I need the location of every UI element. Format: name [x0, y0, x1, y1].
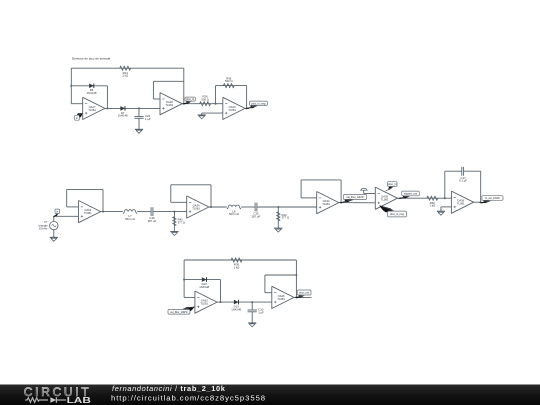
- svg-text:1N4148: 1N4148: [199, 285, 209, 289]
- svg-text:tri_out_10kHz: tri_out_10kHz: [485, 197, 501, 200]
- svg-text:TL081: TL081: [228, 108, 236, 112]
- svg-text:287 μF: 287 μF: [252, 214, 261, 218]
- svg-text:500 Ω: 500 Ω: [201, 97, 209, 101]
- svg-text:TL081: TL081: [84, 211, 92, 215]
- svg-text:pico_in: pico_in: [388, 182, 397, 186]
- svg-text:http://circuitlab.com/cc8z8yc5: http://circuitlab.com/cc8z8yc5p3558: [111, 393, 266, 402]
- svg-text:TL081: TL081: [277, 297, 285, 301]
- svg-text:Detector de pico de entrada: Detector de pico de entrada: [72, 56, 110, 60]
- svg-text:fernandotancini / trab_2_10k: fernandotancini / trab_2_10k: [112, 384, 226, 393]
- svg-text:1 kΩ: 1 kΩ: [234, 265, 240, 269]
- svg-text:pico_in_neg: pico_in_neg: [251, 101, 266, 105]
- svg-text:out_filter_10kHz: out_filter_10kHz: [346, 196, 364, 199]
- svg-text:pico_in: pico_in: [186, 97, 195, 101]
- svg-text:out_filter_10kHz: out_filter_10kHz: [170, 311, 188, 314]
- svg-text:TL081: TL081: [381, 198, 389, 202]
- svg-text:500 Ω: 500 Ω: [225, 79, 233, 83]
- svg-text:377 Ω: 377 Ω: [178, 221, 186, 225]
- svg-text:TL081: TL081: [457, 202, 465, 206]
- svg-text:pico_out: pico_out: [299, 291, 309, 295]
- svg-text:1N4148: 1N4148: [87, 91, 97, 95]
- svg-text:LAB: LAB: [67, 395, 91, 405]
- svg-text:1 μF: 1 μF: [145, 117, 151, 121]
- svg-text:0.1 μF: 0.1 μF: [459, 179, 467, 183]
- svg-text:1 kΩ: 1 kΩ: [122, 74, 128, 78]
- svg-text:1 μF: 1 μF: [258, 310, 264, 314]
- svg-text:TL081: TL081: [192, 206, 200, 210]
- svg-text:1N4148: 1N4148: [231, 307, 241, 311]
- svg-text:TL081: TL081: [166, 103, 174, 107]
- svg-text:560 mH: 560 mH: [229, 212, 239, 216]
- svg-text:1N4148: 1N4148: [118, 114, 128, 118]
- svg-text:1 kΩ: 1 kΩ: [429, 204, 435, 208]
- svg-text:10 kHz: 10 kHz: [39, 226, 48, 230]
- svg-text:560 mH: 560 mH: [125, 217, 135, 221]
- svg-text:TL081: TL081: [88, 108, 96, 112]
- svg-text:pico_in_neg: pico_in_neg: [390, 212, 405, 216]
- svg-text:square_out: square_out: [404, 192, 417, 196]
- svg-text:377 Ω: 377 Ω: [282, 216, 290, 220]
- svg-text:TL081: TL081: [200, 302, 208, 306]
- svg-text:TL081: TL081: [322, 202, 330, 206]
- svg-text:287 μF: 287 μF: [148, 219, 157, 223]
